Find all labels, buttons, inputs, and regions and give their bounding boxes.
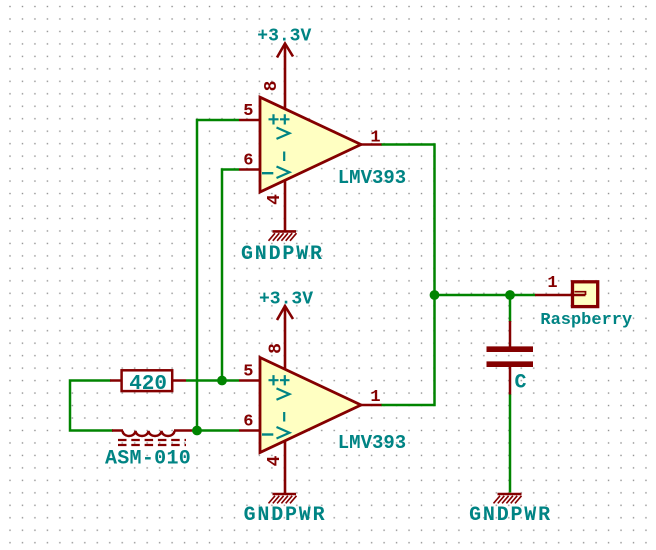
- op-amp U1A V- minus (rotated, vertical bar): [283, 152, 285, 162]
- op-amp U1A pin 1 stub: [360, 143, 382, 146]
- op-amp U1A V+ V (rotated): [277, 128, 290, 139]
- wire node down to capacitor: [509, 295, 512, 322]
- wire U1A output down to node: [381, 145, 435, 296]
- svg-text:5: 5: [243, 102, 253, 121]
- op-amp U1B V- V (rotated): [277, 427, 290, 439]
- connector Raspberry body: [573, 282, 598, 307]
- power +3.3V (bottom) arrow: [277, 306, 293, 320]
- capacitor C top pin: [509, 321, 512, 347]
- op-amp U1B body: [260, 358, 361, 453]
- wire node to connector: [435, 294, 536, 297]
- ground GNDPWR (bottom middle) bar: [273, 493, 297, 496]
- wire pin5 U1A to node at (197,430.5): [197, 120, 239, 431]
- svg-text:4: 4: [265, 455, 285, 466]
- wire resistor left loop to inductor left: [70, 381, 113, 431]
- op-amp U1B minus input symbol: [262, 433, 273, 435]
- ground GNDPWR (bottom middle) hatches: [269, 496, 297, 504]
- op-amp U1A pin 8 line: [284, 44, 287, 110]
- svg-text:ASM-010: ASM-010: [105, 448, 191, 471]
- op-amp U1A minus input symbol: [262, 172, 273, 174]
- svg-text:1: 1: [370, 129, 380, 148]
- ground GNDPWR (top) bar: [273, 230, 297, 233]
- capacitor C top plate: [487, 346, 534, 352]
- svg-text:LMV393: LMV393: [338, 167, 406, 189]
- resistor R 420 body: [122, 370, 173, 391]
- ground GNDPWR (right) bar: [498, 493, 522, 496]
- op-amp U1A body: [260, 97, 361, 192]
- svg-text:GNDPWR: GNDPWR: [469, 504, 552, 527]
- op-amp U1B pin 6 stub: [239, 429, 261, 432]
- wire capacitor to ground: [509, 394, 512, 493]
- svg-text:Raspberry: Raspberry: [540, 311, 632, 330]
- op-amp U1B V+ plus (rotated text part): [280, 375, 290, 385]
- svg-text:6: 6: [243, 413, 253, 432]
- junction node OUT (434.5,295): [430, 290, 440, 300]
- ground GNDPWR (top) hatches: [269, 233, 297, 241]
- svg-text:1: 1: [370, 388, 380, 407]
- wire resistor right to pin5 U1B: [186, 379, 239, 382]
- svg-text:LMV393: LMV393: [338, 432, 406, 454]
- op-amp U1B V+ V (rotated): [277, 388, 290, 399]
- op-amp U1A pin 5 stub: [239, 119, 261, 122]
- junction node C branch (510,295): [505, 290, 515, 300]
- op-amp U1B pin 1 stub: [360, 404, 382, 407]
- op-amp U1A pin 4 line: [284, 180, 287, 231]
- svg-text:+3.3V: +3.3V: [259, 290, 313, 310]
- op-amp U1A pin 6 stub: [239, 168, 261, 171]
- ground GNDPWR (right) hatches: [494, 496, 522, 504]
- inductor ASM-010 right stub: [174, 429, 192, 432]
- connector Raspberry pin stub: [535, 294, 586, 297]
- resistor R 420 right stub: [173, 379, 186, 382]
- svg-text:C: C: [514, 372, 526, 395]
- wire pin6 U1A to node at (222,380.5): [222, 170, 239, 381]
- inductor ASM-010 left stub: [112, 429, 123, 432]
- junction node A (222,380.5): [217, 376, 227, 386]
- capacitor C bottom pin: [509, 366, 512, 395]
- power +3.3V (top) arrow: [277, 44, 293, 58]
- op-amp U1A V+ plus (rotated text part): [280, 114, 290, 124]
- op-amp U1B V- minus (rotated, vertical bar): [283, 412, 285, 422]
- op-amp U1A plus input symbol: [269, 114, 279, 124]
- svg-text:GNDPWR: GNDPWR: [244, 504, 327, 527]
- connector Raspberry pin notch: [575, 292, 586, 295]
- svg-text:1: 1: [547, 274, 557, 293]
- svg-text:8: 8: [262, 81, 282, 92]
- capacitor C bottom plate: [487, 361, 534, 367]
- svg-text:8: 8: [267, 343, 287, 354]
- op-amp U1A V- V (rotated): [277, 167, 290, 179]
- op-amp U1B pin 5 stub: [239, 379, 261, 382]
- junction node B (197,430.5): [192, 426, 202, 436]
- resistor R 420 left stub: [110, 379, 121, 382]
- op-amp U1B pin 8 line: [284, 306, 287, 370]
- svg-text:4: 4: [265, 194, 285, 205]
- wire inductor right to pin6 U1B: [192, 429, 239, 432]
- svg-text:+3.3V: +3.3V: [257, 27, 311, 47]
- wire U1B output up to node: [381, 295, 435, 405]
- op-amp U1B pin 4 line: [284, 441, 287, 495]
- op-amp U1B plus input symbol: [269, 375, 279, 385]
- inductor ASM-010 coils: [123, 431, 175, 436]
- svg-text:6: 6: [243, 152, 253, 171]
- svg-text:420: 420: [129, 373, 167, 396]
- svg-text:GNDPWR: GNDPWR: [241, 243, 324, 266]
- inductor ASM-010 core dashes: [118, 439, 186, 441]
- svg-text:5: 5: [243, 363, 253, 382]
